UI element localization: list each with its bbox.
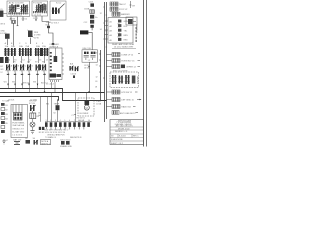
fuse F2	[10, 48, 16, 56]
svg-text:SEE NOTE B: SEE NOTE B	[70, 137, 82, 139]
svg-text:2: 2	[50, 120, 51, 122]
svg-text:SEE PG 2: SEE PG 2	[41, 143, 50, 145]
switch S7	[69, 63, 73, 71]
svg-text:S4: S4	[33, 138, 35, 140]
terminal t4	[59, 122, 62, 129]
wire to terminal t7	[74, 93, 76, 122]
svg-text:A4: A4	[110, 34, 112, 37]
ic U1 in B5	[55, 48, 57, 56]
wire from L2 to coil box	[88, 32, 92, 49]
resistor R1 mid-left	[28, 30, 41, 40]
title block TB	[110, 119, 144, 144]
svg-text:14 BLK: 14 BLK	[8, 100, 15, 102]
svg-text:HTR SW 12: HTR SW 12	[121, 92, 133, 94]
ground G1 left edge	[0, 30, 9, 45]
switch S3	[13, 62, 18, 73]
svg-text:A1: A1	[110, 20, 112, 23]
B9 leader ticks from bus	[105, 21, 109, 39]
svg-text:MARKER: MARKER	[121, 13, 130, 16]
pins of B5 left	[50, 52, 52, 71]
specks below bus	[8, 100, 49, 106]
svg-text:16GA: 16GA	[84, 8, 90, 11]
svg-text:50 W: 50 W	[34, 37, 39, 39]
svg-text:WIPER 14: WIPER 14	[126, 67, 136, 69]
right row RR3	[112, 12, 130, 16]
terminal t7	[73, 122, 76, 129]
relay K1	[9, 4, 17, 12]
svg-text:BLK 12: BLK 12	[41, 82, 48, 84]
splice S1	[46, 21, 52, 28]
svg-text:18: 18	[96, 52, 98, 54]
junction dots	[44, 91, 90, 101]
wire from C2 down	[13, 23, 15, 45]
B1 header text	[9, 2, 25, 5]
svg-text:C6: C6	[25, 138, 27, 140]
svg-text:A2: A2	[110, 25, 112, 28]
svg-text:B2: B2	[5, 110, 7, 112]
bus vertical V1	[100, 50, 102, 100]
fuse F4	[25, 48, 33, 56]
svg-text:RES: RES	[34, 32, 39, 34]
svg-text:A4 B6: A4 B6	[10, 17, 16, 20]
switch S8	[75, 66, 79, 71]
harness chain H1	[84, 2, 99, 28]
right row RR1	[110, 2, 127, 6]
switch row side ticks	[11, 64, 44, 67]
wires below fuse row	[7, 56, 48, 63]
svg-text:J1 K2: J1 K2	[33, 18, 39, 20]
motor box B7	[78, 98, 94, 116]
wires switch row to bus	[9, 73, 45, 93]
cluster CL1 ground studs	[60, 139, 73, 148]
right cluster RB1	[110, 72, 139, 88]
svg-text:FRAME GRD: FRAME GRD	[60, 145, 73, 148]
motor M1	[80, 93, 90, 116]
svg-text:A5: A5	[110, 39, 112, 42]
svg-text:GRN: GRN	[124, 21, 129, 23]
note box NB1	[41, 140, 51, 146]
svg-text:1: 1	[46, 120, 47, 122]
S7 S8 label below	[70, 74, 77, 78]
left marks	[0, 66, 4, 74]
ticks on V2 V3 upper	[100, 7, 108, 47]
svg-text:RED: RED	[124, 40, 129, 42]
junction box B2	[32, 1, 48, 16]
terminal t3	[54, 122, 57, 129]
svg-text:S2: S2	[53, 113, 55, 115]
wire stub B1 a	[10, 17, 12, 21]
right panel box B9	[108, 18, 133, 44]
svg-text:C6: C6	[95, 81, 97, 83]
svg-text:SCALE NONE: SCALE NONE	[111, 138, 123, 141]
pin labels left in B9	[110, 20, 112, 41]
svg-text:IGN ACC ST: IGN ACC ST	[12, 127, 24, 130]
svg-text:1 2 3 4 5 6: 1 2 3 4 5 6	[12, 134, 22, 136]
wire stub B2 a	[35, 16, 37, 21]
B4 below labels	[84, 65, 90, 70]
vertical wire label column	[136, 27, 137, 42]
wire from R1 down	[30, 38, 32, 44]
under-switch dashes	[7, 74, 46, 75]
svg-text:20A 15A 10A: 20A 15A 10A	[12, 124, 24, 127]
ticks labels on V1 V2	[95, 52, 105, 88]
svg-text:A1 B2 C3 D4 E5: A1 B2 C3 D4 E5	[9, 2, 25, 5]
pin ticks right of B5	[62, 54, 64, 74]
label box L2	[80, 30, 88, 34]
svg-text:A3: A3	[110, 30, 112, 33]
svg-text:16 14 12 GA BLK WHT: 16 14 12 GA BLK WHT	[114, 45, 134, 48]
svg-text:GRN 14: GRN 14	[22, 82, 30, 84]
fuse row labels	[5, 42, 55, 48]
text specks above bus	[4, 82, 49, 85]
fuse F3	[18, 48, 24, 56]
bus vertical V3	[106, 2, 108, 119]
svg-text:16 GA: 16 GA	[84, 67, 90, 70]
svg-text:B1: B1	[5, 105, 7, 107]
svg-text:B5: B5	[5, 123, 7, 125]
relay K2	[20, 4, 28, 12]
svg-text:DOME LP 14: DOME LP 14	[121, 55, 134, 57]
relay K3	[35, 4, 43, 12]
svg-text:R2 S3 T4: R2 S3 T4	[77, 118, 85, 120]
svg-text:9: 9	[83, 120, 84, 122]
bus wire W3	[0, 97, 59, 101]
svg-text:6: 6	[69, 120, 70, 122]
text row under B9	[112, 43, 136, 48]
svg-text:BLU: BLU	[124, 26, 128, 28]
drop wire D2	[130, 1, 136, 8]
svg-text:M: M	[86, 106, 88, 110]
solenoid L1 in B3	[52, 8, 60, 15]
svg-text:4: 4	[60, 120, 61, 122]
left comp LC1	[0, 57, 4, 63]
wire mid W5	[38, 97, 41, 122]
connector J0 left edge	[0, 9, 7, 17]
svg-text:REV C: REV C	[133, 136, 139, 138]
svg-text:BLOWER: BLOWER	[80, 113, 89, 115]
wire stub B2 b	[42, 16, 49, 26]
svg-text:E-10422: E-10422	[119, 136, 126, 138]
switch S5	[27, 62, 32, 73]
lamp DS1	[30, 122, 35, 127]
connector C3	[26, 140, 31, 144]
chain in B9	[118, 20, 122, 41]
svg-text:SHEET 1 OF 2: SHEET 1 OF 2	[111, 143, 123, 145]
right row RR7	[106, 90, 137, 94]
svg-text:N1 N2: N1 N2	[39, 132, 44, 134]
svg-text:DM: DM	[27, 62, 30, 64]
svg-text:1 2: 1 2	[88, 60, 91, 62]
ground G2	[30, 127, 34, 134]
wire to terminal t2	[51, 93, 53, 122]
svg-text:5: 5	[64, 120, 65, 122]
svg-text:14: 14	[22, 60, 24, 62]
bus wire W2	[0, 92, 105, 94]
border right double line	[143, 0, 145, 147]
labels below terminal row	[45, 130, 82, 140]
terminal t10	[87, 122, 90, 127]
svg-text:4 OHM: 4 OHM	[34, 35, 41, 37]
coil box B4	[82, 48, 97, 62]
switch S6b	[42, 62, 47, 73]
terminal row of B5	[50, 74, 61, 78]
svg-text:8: 8	[78, 120, 79, 122]
svg-text:B3: B3	[5, 114, 7, 116]
svg-text:TO CAB: TO CAB	[2, 99, 10, 102]
wire chain down	[91, 28, 93, 31]
wire to terminal t1	[47, 97, 49, 122]
tick end of S1 wire	[52, 43, 54, 45]
svg-text:C1 D2: C1 D2	[22, 18, 29, 20]
terminal row header specks	[46, 120, 90, 122]
terminal t8	[78, 122, 81, 129]
diode D1 center of B1	[16, 5, 20, 9]
relay K4 in B6	[14, 113, 23, 121]
wires from B5 down	[52, 82, 56, 92]
fuse F5	[35, 48, 43, 56]
coil T1	[84, 52, 89, 60]
svg-text:BRN: BRN	[124, 35, 129, 37]
svg-text:ORN BLU BRN PUR: ORN BLU BRN PUR	[47, 134, 65, 136]
right row RR4	[106, 53, 140, 57]
B1 labels below	[10, 17, 29, 20]
terminal t5	[64, 122, 67, 129]
svg-text:BAT 12V: BAT 12V	[13, 138, 21, 141]
svg-text:C7: C7	[71, 115, 73, 117]
svg-text:12: 12	[96, 76, 98, 78]
svg-text:YEL: YEL	[124, 30, 128, 32]
svg-text:16: 16	[38, 112, 40, 114]
fuse F1	[4, 48, 10, 56]
svg-text:1 2 3 4 5 6 7 8: 1 2 3 4 5 6 7 8	[10, 15, 22, 17]
svg-text:12: 12	[100, 13, 102, 15]
bottom labels row	[5, 138, 35, 142]
left connector column CC1	[1, 103, 8, 133]
wire from S1 down to fuse	[49, 28, 54, 43]
switch S10	[34, 140, 39, 145]
pin labels right in B9	[124, 21, 129, 41]
switch arm S0 in B3	[59, 4, 65, 10]
svg-text:K4 L2: K4 L2	[56, 3, 62, 5]
svg-text:12 VOLT: 12 VOLT	[51, 23, 60, 25]
wires in B6	[13, 105, 22, 113]
svg-text:RADIO B4: RADIO B4	[121, 106, 131, 109]
svg-text:14: 14	[46, 60, 48, 62]
svg-text:B+ BAT GRD: B+ BAT GRD	[12, 130, 24, 133]
svg-text:TAIL LP: TAIL LP	[119, 3, 127, 6]
svg-text:C5 D6: C5 D6	[70, 74, 77, 76]
sensor cluster SN1	[53, 101, 59, 122]
svg-text:ANT LEAD B6 12: ANT LEAD B6 12	[120, 112, 136, 115]
svg-text:B4: B4	[5, 119, 7, 121]
fuse F6	[41, 48, 49, 56]
svg-text:3: 3	[55, 120, 56, 122]
box B8 right	[126, 17, 137, 25]
label right of B7	[96, 101, 102, 106]
svg-text:STOP LP: STOP LP	[119, 9, 128, 11]
terminal strip TS2 in B2	[33, 11, 47, 13]
labels in B6	[12, 121, 25, 136]
terminal t6	[69, 122, 72, 129]
bus wire W1	[0, 89, 107, 101]
wire stub B1 c	[22, 17, 24, 22]
battery BT1	[13, 138, 21, 144]
ecu box B5	[49, 43, 62, 80]
svg-text:10: 10	[88, 120, 90, 122]
svg-text:18: 18	[95, 86, 97, 88]
svg-text:3 POS: 3 POS	[29, 103, 36, 105]
svg-text:GAUGES: GAUGES	[136, 76, 139, 85]
svg-text:1 2 3 4 5: 1 2 3 4 5	[34, 14, 41, 16]
svg-text:TEMP: TEMP	[54, 103, 60, 105]
svg-text:G7: G7	[5, 140, 8, 142]
tick row under B5	[51, 80, 59, 82]
arrows on wires	[7, 84, 38, 86]
svg-text:HORN RLY 16: HORN RLY 16	[121, 61, 135, 63]
right row RR5	[106, 59, 140, 63]
connector C2	[12, 21, 16, 24]
right row RR9	[106, 105, 135, 109]
terminal t2	[50, 122, 53, 129]
svg-text:SERIES F + G: SERIES F + G	[115, 131, 128, 133]
ground G3	[2, 139, 5, 144]
switch S2	[6, 62, 11, 73]
svg-text:DEF GRID 16: DEF GRID 16	[121, 100, 134, 102]
svg-text:12GA: 12GA	[96, 102, 102, 105]
wire from B4 down	[89, 62, 91, 92]
wire stub B1 b	[17, 17, 19, 27]
svg-text:AND CAB CIRCUITS: AND CAB CIRCUITS	[116, 125, 134, 128]
right row RR6	[106, 65, 140, 69]
terminal strip TS1 in B1	[8, 12, 28, 14]
svg-text:14: 14	[96, 64, 98, 66]
coil T2	[90, 52, 95, 60]
right row RR10	[112, 111, 138, 115]
svg-text:TO MAIN C4: TO MAIN C4	[45, 136, 56, 139]
svg-text:16: 16	[39, 60, 41, 62]
terminal t9	[83, 122, 86, 129]
terminal t1	[45, 122, 48, 129]
fuse panel box B6	[11, 105, 28, 138]
svg-text:IGN COIL: IGN COIL	[82, 48, 92, 50]
control box B3	[50, 1, 66, 20]
left comp LC2	[5, 57, 9, 63]
svg-text:14: 14	[100, 29, 102, 31]
right row RR2	[110, 7, 128, 11]
switch S9	[29, 101, 36, 111]
right row RR8	[106, 98, 141, 102]
relay K3b	[41, 4, 46, 11]
svg-text:7: 7	[74, 120, 75, 122]
junction box B1	[7, 1, 30, 17]
terminal blocks TB1 TB2	[39, 127, 45, 134]
switch S4	[20, 62, 25, 73]
terminal row bus	[45, 121, 92, 123]
switch S6	[35, 62, 41, 73]
bus vertical V2	[104, 2, 106, 122]
resistor R2	[30, 111, 39, 122]
